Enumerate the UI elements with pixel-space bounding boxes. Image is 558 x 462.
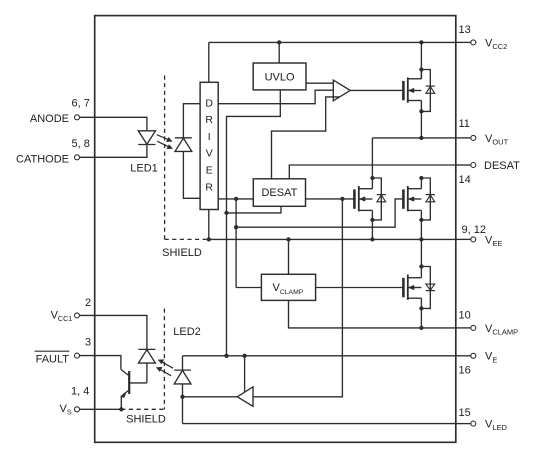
svg-text:15: 15 — [459, 407, 471, 419]
wire VEE to VCLAMP top — [288, 239, 290, 274]
wire UVLO to buffer input — [306, 82, 333, 84]
buffer amplifier U2 — [333, 80, 350, 101]
wire UVLO bottom to VE rail — [227, 90, 281, 356]
pin VE (16) terminal — [456, 355, 471, 357]
svg-text:R: R — [205, 181, 213, 193]
svg-text:13: 13 — [459, 24, 471, 36]
node M1/M3 junction on VOUT — [419, 136, 423, 140]
transistor M3 (pull-down MOSFET) — [402, 189, 405, 208]
node fault sense junction — [340, 197, 344, 201]
transistor M1 (pull-up MOSFET with body diode) — [402, 81, 405, 100]
svg-text:14: 14 — [459, 174, 471, 186]
svg-text:DESAT: DESAT — [261, 187, 297, 199]
shield 1 dashed line (upper optocoupler shield) — [164, 76, 166, 240]
svg-text:SHIELD: SHIELD — [126, 413, 166, 425]
svg-text:V: V — [206, 148, 213, 160]
svg-text:I: I — [208, 131, 211, 143]
wire driver output to M3 gate — [235, 199, 237, 288]
svg-text:E: E — [206, 165, 213, 177]
wire VS to Q1 emitter — [80, 408, 122, 410]
node DESAT bottom junction — [224, 211, 228, 215]
UVLO block — [253, 63, 306, 90]
node M4 tap on VCLAMP rail — [419, 326, 423, 330]
wire PD2 to Q1 base — [130, 382, 147, 384]
transistor M4 (clamp MOSFET, reversed body diode) — [402, 278, 405, 297]
transistor Q1 (fault output NPN) — [128, 371, 130, 394]
svg-text:LED1: LED1 — [130, 163, 158, 175]
svg-text:3: 3 — [85, 337, 91, 349]
wire VCC2 to UVLO — [278, 42, 280, 63]
transistor M2 (DESAT sense MOSFET) — [353, 189, 356, 208]
pin DESAT (14) terminal — [456, 164, 471, 166]
pin VCLAMP (10) terminal — [456, 327, 471, 329]
node M1 drain tap on VCC2 — [419, 40, 423, 44]
node VCLAMP tap on VEE — [286, 237, 290, 241]
wire M4 source to VCLAMP rail — [420, 308, 422, 328]
svg-text:9, 12: 9, 12 — [462, 224, 486, 236]
photodiode PD1 — [175, 137, 192, 139]
wire VEE rail — [209, 238, 456, 240]
IC package outline box — [95, 16, 456, 443]
wire VE to inverter — [244, 356, 246, 393]
wire LED2 to VLED rail — [183, 423, 456, 425]
svg-text:LED2: LED2 — [173, 326, 201, 338]
node UVLO tap on VCC2 — [277, 40, 281, 44]
wire VCLAMP output to M4 gate — [316, 287, 404, 289]
svg-text:10: 10 — [459, 310, 471, 322]
light arrows LED1 to PD1 — [157, 135, 169, 140]
pin FAULT (3) terminal — [75, 353, 80, 358]
shield 2 dashed line (fault optocoupler shield) — [163, 309, 165, 410]
LED1 emitter diode — [138, 131, 155, 144]
pin ANODE (6,7) terminal — [75, 115, 80, 120]
node M2 tap on VEE — [370, 237, 374, 241]
node Q1 emitter on VS — [119, 407, 123, 411]
wire PD1 cathode to DRIVER — [183, 104, 200, 138]
node driver output junction — [234, 197, 238, 201]
wire FAULT to transistor Q1 collector — [80, 356, 121, 370]
wire VCLAMP bottom to VCLAMP rail — [289, 300, 456, 328]
svg-text:SHIELD: SHIELD — [162, 247, 202, 259]
pin VLED (15) terminal — [456, 423, 471, 425]
wire M1 source to VOUT — [420, 111, 422, 137]
svg-text:D: D — [205, 97, 213, 109]
node gate return junction — [234, 225, 238, 229]
wire VOUT to M2 drain — [371, 138, 373, 178]
wire DRIVER to buffer input — [218, 90, 333, 104]
svg-text:11: 11 — [459, 118, 470, 130]
wire VCC2 rail — [209, 41, 456, 43]
pin VCC1 (2) terminal — [75, 313, 80, 318]
pin VS (1,4) terminal — [75, 407, 80, 412]
wire VOUT rail — [372, 137, 455, 139]
svg-text:ANODE: ANODE — [30, 113, 69, 125]
photodiode PD2 — [138, 348, 155, 350]
svg-text:CATHODE: CATHODE — [16, 153, 69, 165]
node UVLO-return tap on VE — [224, 354, 228, 358]
node shield/VEE junction at driver — [207, 237, 211, 241]
svg-text:R: R — [205, 114, 213, 126]
wire DRIVER to DESAT — [218, 198, 253, 200]
pin CATHODE (5,8) terminal — [75, 155, 80, 160]
wire M2 source to VEE — [371, 220, 373, 240]
svg-text:UVLO: UVLO — [265, 71, 295, 83]
wire gate line to VCLAMP input — [236, 287, 261, 289]
node LED2 cathode junction — [180, 395, 184, 399]
driver block U1 — [200, 82, 218, 209]
svg-text:DESAT: DESAT — [484, 160, 520, 172]
wire VCC1 to photodiode PD2 — [80, 315, 147, 349]
wire ANODE to LED1 anode — [80, 117, 147, 131]
wire DESAT to buffer input — [272, 97, 340, 179]
wire DRIVER bottom to VEE rail — [208, 210, 210, 240]
node inverter tap on VE — [242, 354, 246, 358]
wire DESAT output to M2 gate — [306, 198, 356, 200]
wire CATHODE to LED1 cathode — [80, 145, 147, 158]
VCLAMP block — [261, 274, 315, 300]
svg-text:5, 8: 5, 8 — [72, 138, 90, 150]
wire VCC2 to M1 drain — [420, 42, 422, 78]
wire PD1 anode to DRIVER — [183, 151, 200, 198]
wire gate return to M3 — [236, 199, 403, 227]
pin VCC2 (13) terminal — [456, 41, 471, 43]
wire VEE to M4 drain — [420, 239, 422, 266]
wire M3 source to VEE — [420, 220, 422, 240]
wire DRIVER top to VCC2 rail — [208, 42, 210, 82]
wire VE rail — [183, 355, 456, 357]
svg-text:1, 4: 1, 4 — [71, 386, 89, 398]
svg-text:6, 7: 6, 7 — [72, 97, 90, 109]
wire DESAT pin to DESAT block — [289, 165, 456, 179]
pin VEE (9,12) terminal — [456, 238, 471, 240]
wire inverter output to LED2 — [183, 396, 238, 398]
node M3 tap on VEE — [419, 237, 423, 241]
svg-text:FAULT: FAULT — [36, 354, 70, 366]
svg-text:2: 2 — [85, 297, 91, 309]
wire fault sense to inverter input — [253, 199, 342, 397]
LED2 fault feedback diode — [182, 356, 184, 370]
inverter U3 (LED2 driver) — [237, 387, 253, 407]
svg-text:16: 16 — [459, 365, 471, 377]
light arrows LED2 to PD2 — [161, 361, 173, 368]
pin VOUT (11) terminal — [456, 137, 471, 139]
wire buffer output to M1 gate — [350, 89, 402, 91]
wire DESAT bottom to VE line — [227, 206, 282, 213]
DESAT block — [253, 179, 305, 207]
